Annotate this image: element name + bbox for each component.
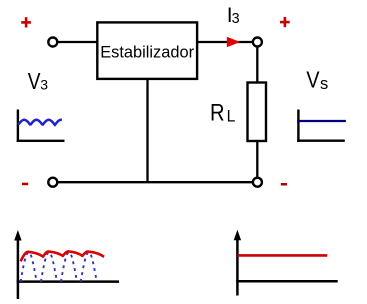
svg-text:V: V (28, 70, 41, 95)
svg-text:3: 3 (40, 76, 48, 92)
svg-text:L: L (227, 107, 236, 125)
svg-text:Estabilizador: Estabilizador (100, 44, 194, 62)
svg-text:R: R (210, 99, 225, 126)
svg-text:3: 3 (232, 11, 240, 27)
svg-text:V: V (306, 67, 320, 93)
svg-text:s: s (320, 75, 328, 93)
